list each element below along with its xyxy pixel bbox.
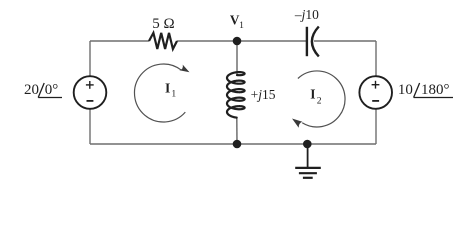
wire right vertical upper <box>375 41 377 77</box>
voltage source 20/0 minus sign <box>87 100 94 102</box>
voltage source 10/180 plus sign <box>372 84 380 86</box>
voltage source 20/0 circle <box>74 76 107 109</box>
mesh current I1 arrowhead <box>179 65 189 73</box>
svg-text:20: 20 <box>24 82 39 98</box>
angle symbol for 20/0 <box>38 83 44 98</box>
voltage source 10/180 circle <box>359 76 392 109</box>
wire inductor branch lower stub <box>236 117 238 144</box>
capacitor -j10 left plate <box>306 27 308 56</box>
svg-text:+j15: +j15 <box>251 87 276 102</box>
wire left vertical lower <box>89 109 91 145</box>
inductor +j15 coil <box>227 72 245 118</box>
voltage source 10/180 minus sign <box>372 100 379 102</box>
svg-text:5 Ω: 5 Ω <box>152 16 174 32</box>
ground symbol bar 1 <box>295 167 321 169</box>
wire capacitor to top-right corner <box>314 40 376 42</box>
wire node V1 to capacitor <box>237 40 306 42</box>
ground symbol bar 3 <box>303 177 313 179</box>
mesh current I2 arrowhead <box>292 119 302 128</box>
wire right vertical lower <box>375 109 377 145</box>
svg-text:2: 2 <box>317 95 322 106</box>
node V1 junction dot <box>233 37 242 46</box>
svg-text:180°: 180° <box>421 82 450 98</box>
svg-text:10: 10 <box>398 82 413 98</box>
capacitor -j10 curved right plate <box>312 27 319 57</box>
wire top-middle horizontal segment (resistor to node V1) <box>177 40 237 42</box>
svg-text:I: I <box>310 86 315 101</box>
mesh current I2 arrow arc <box>298 71 345 127</box>
mesh current I1 arrow arc <box>134 64 185 122</box>
svg-text:1: 1 <box>171 89 176 100</box>
node dot inductor bottom <box>233 140 242 149</box>
wire left vertical upper <box>89 41 91 77</box>
ground symbol bar 2 <box>299 172 317 174</box>
svg-text:0°: 0° <box>45 82 59 98</box>
svg-text:–j10: –j10 <box>294 7 319 22</box>
resistor 5 ohm <box>149 33 177 49</box>
voltage source 20/0 plus sign <box>86 84 94 86</box>
node dot ground junction <box>303 140 312 149</box>
ground symbol stem <box>307 144 309 167</box>
wire inductor branch upper stub <box>236 41 238 75</box>
angle symbol for 10/180 <box>414 83 420 98</box>
wire bottom horizontal <box>90 143 376 145</box>
svg-text:1: 1 <box>239 20 244 31</box>
svg-text:I: I <box>165 81 170 96</box>
wire top-left horizontal segment <box>90 40 149 42</box>
